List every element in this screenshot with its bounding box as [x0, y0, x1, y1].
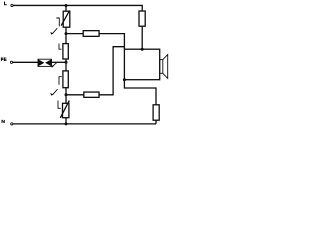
wire fuse F2 to varistor RV2	[65, 88, 67, 104]
wire tap to resistor R2	[66, 94, 84, 96]
gas discharge tube GDT	[38, 59, 52, 66]
node PE label	[1, 58, 7, 61]
wire L top rail	[13, 5, 142, 11]
wire R3 to box top	[141, 26, 143, 49]
wire fuse to PE rail	[65, 59, 67, 71]
disconnect arrow lower	[53, 89, 58, 94]
node junction dot on L rail	[65, 4, 68, 7]
disconnect mark upper varistor	[56, 18, 59, 26]
node junction dot lower resistor tap	[65, 93, 68, 96]
wire tap to resistor R1	[66, 33, 83, 35]
wire from L dot down	[65, 5, 67, 11]
terminal PE	[10, 61, 12, 63]
node N junction dot	[65, 122, 68, 125]
disconnect arrow below PE	[53, 63, 57, 66]
resistor R2	[84, 92, 99, 97]
resistor R3 top right	[139, 11, 145, 26]
wire PE rail left	[13, 61, 38, 63]
varistor RV2	[63, 103, 69, 117]
node junction dot box bottom left	[123, 78, 126, 81]
wire R2 up and right to box area	[99, 47, 124, 95]
wire PE rail right	[52, 61, 67, 63]
alarm box U1	[124, 49, 159, 79]
wire R4 to N rail	[155, 120, 157, 124]
node N label	[2, 120, 5, 123]
wire box bottom-left down and right to R4	[124, 80, 156, 105]
wire N rail	[13, 123, 156, 125]
varistor RV1	[63, 11, 70, 27]
wire varistor to fuse	[65, 27, 67, 43]
loudspeaker LS1	[160, 60, 163, 74]
node L label	[4, 2, 7, 6]
fuse F1	[63, 44, 68, 59]
disconnect mark lower fuse	[59, 77, 62, 85]
wire varistor RV2 to N rail	[65, 118, 67, 124]
disconnect mark lower varistor	[58, 101, 61, 109]
terminal N	[11, 123, 13, 125]
disconnect arrow upper	[53, 28, 57, 33]
resistor R1	[83, 31, 99, 37]
disconnect mark upper fuse	[59, 44, 62, 50]
node junction dot on box top	[141, 48, 144, 51]
wire R1 to corner into box top-left	[99, 34, 124, 50]
resistor R4 bottom right	[153, 105, 159, 120]
node junction dot upper resistor tap	[65, 32, 68, 35]
terminal L	[11, 4, 13, 6]
fuse F2	[63, 71, 68, 88]
node PE junction dot	[65, 61, 68, 64]
